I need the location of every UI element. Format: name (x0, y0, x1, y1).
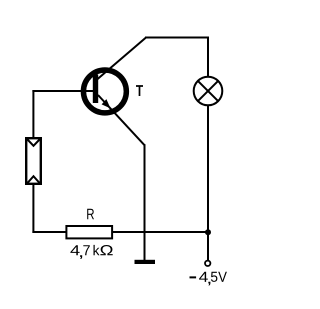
wire: top horizontal (collector to lamp) (145, 37, 209, 39)
label R (87, 209, 94, 220)
wire: vertical down to lamp top (207, 37, 209, 78)
wire: junction to terminal (207, 232, 209, 260)
ground (135, 260, 156, 264)
label T (136, 85, 143, 96)
wire: emitter branch vertical (144, 144, 146, 260)
sensor component (rectangle with inward chevrons) (26, 138, 41, 184)
lamp (194, 77, 223, 106)
wire: base wire horizontal (32, 90, 93, 92)
terminal: open circle (205, 261, 210, 266)
resistor R 4,7 kOhm (66, 226, 112, 238)
wire: lamp bottom to junction (207, 105, 209, 232)
transistor T (83, 38, 146, 146)
wire: left vertical upper (32, 90, 34, 138)
wire: bottom horizontal left of R (32, 231, 66, 233)
wire: bottom horizontal right of R (113, 231, 208, 233)
wire: left vertical lower (32, 184, 34, 233)
label -4,5V (190, 272, 227, 286)
node: junction dot (205, 229, 211, 235)
value label 4,7 kOhm (70, 245, 112, 259)
